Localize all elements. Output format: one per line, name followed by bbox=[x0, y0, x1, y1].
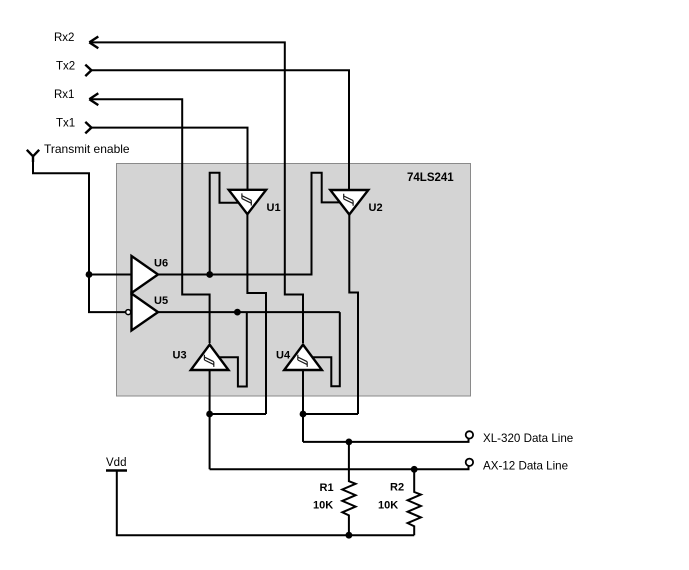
wire Vdd rail bbox=[117, 471, 414, 536]
port Tx2 bbox=[56, 61, 91, 77]
antenna Transmit enable bbox=[27, 142, 130, 162]
port Rx1 bbox=[54, 89, 98, 105]
svg-text:U6: U6 bbox=[154, 258, 168, 270]
port Rx2 bbox=[54, 32, 98, 48]
svg-text:AX-12 Data Line: AX-12 Data Line bbox=[483, 460, 568, 473]
connector XL-320 bbox=[466, 431, 473, 438]
buffer U4 bbox=[276, 345, 322, 370]
buffer U3 bbox=[173, 345, 229, 370]
svg-text:Rx2: Rx2 bbox=[54, 32, 74, 44]
resistor R2 bbox=[378, 469, 421, 535]
wire Transmit enable bbox=[33, 160, 132, 312]
power Vdd bbox=[106, 457, 127, 471]
wire U5 output bbox=[158, 311, 340, 313]
wire node XL upper segment bbox=[303, 413, 358, 415]
connector AX-12 bbox=[466, 459, 473, 466]
svg-text:U3: U3 bbox=[173, 350, 187, 362]
svg-text:Rx1: Rx1 bbox=[54, 89, 74, 101]
svg-text:U5: U5 bbox=[154, 295, 168, 307]
svg-text:U4: U4 bbox=[276, 350, 291, 362]
buffer U6 bbox=[132, 256, 169, 293]
junction TE node bbox=[86, 271, 93, 278]
wire Tx2 bbox=[91, 70, 349, 189]
junction U3 input node bbox=[206, 411, 213, 418]
junction U4 input node bbox=[300, 411, 307, 418]
svg-text:Tx2: Tx2 bbox=[56, 61, 75, 73]
wire Tx1 bbox=[91, 128, 247, 190]
wire Rx1 bbox=[91, 99, 210, 343]
wire U2 output bbox=[349, 214, 358, 415]
svg-text:U1: U1 bbox=[267, 202, 281, 214]
buffer U1 bbox=[229, 190, 281, 214]
wire AX-12 data line bbox=[210, 466, 469, 469]
svg-text:74LS241: 74LS241 bbox=[407, 172, 454, 184]
port Tx1 bbox=[56, 118, 91, 134]
svg-text:Vdd: Vdd bbox=[106, 457, 126, 469]
svg-text:XL-320 Data Line: XL-320 Data Line bbox=[483, 432, 573, 445]
wire U3 input bbox=[209, 370, 211, 469]
junction dot on U5 output line bbox=[234, 309, 241, 316]
wire U3 enable bbox=[219, 312, 246, 386]
junction AX to R2 bbox=[411, 466, 418, 473]
wire U4 input bbox=[302, 370, 304, 442]
svg-text:R2: R2 bbox=[390, 482, 404, 494]
svg-text:Transmit enable: Transmit enable bbox=[44, 142, 130, 156]
IC body 74LS241 bbox=[117, 164, 471, 397]
buffer U2 bbox=[330, 190, 382, 215]
wire XL-320 data line bbox=[303, 439, 469, 442]
svg-text:10K: 10K bbox=[378, 500, 398, 512]
svg-text:R1: R1 bbox=[320, 482, 334, 494]
svg-text:Tx1: Tx1 bbox=[56, 118, 75, 130]
junction U6 output to U1 enable bbox=[206, 271, 213, 278]
wire U1 output bbox=[247, 213, 266, 414]
buffer U5 bbox=[126, 294, 168, 331]
wire U6 output to U1 and U2 enables bbox=[158, 173, 340, 275]
svg-text:U2: U2 bbox=[369, 202, 383, 214]
wire node AX upper segment bbox=[210, 413, 266, 415]
svg-text:10K: 10K bbox=[313, 500, 333, 512]
resistor R1 bbox=[313, 442, 356, 535]
junction R1 bottom bbox=[346, 532, 353, 539]
junction XL to R1 bbox=[346, 439, 353, 446]
wire Rx2 bbox=[91, 42, 304, 343]
wire U4 enable bbox=[313, 312, 340, 386]
